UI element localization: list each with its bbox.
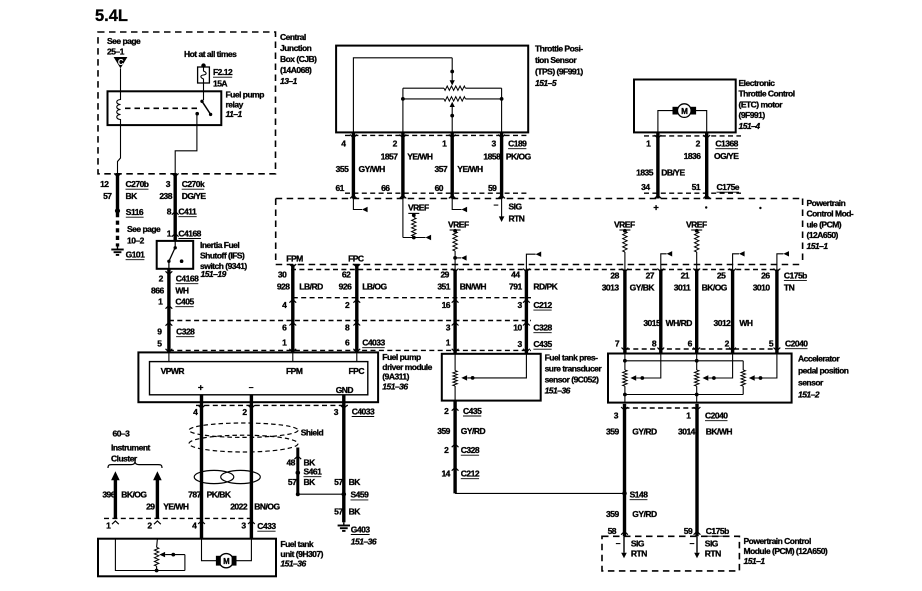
svg-text:C4033: C4033 [352,406,375,416]
svg-text:3013: 3013 [602,283,620,293]
svg-text:355: 355 [336,164,349,174]
svg-text:151–4: 151–4 [739,121,761,131]
svg-text:C189: C189 [508,139,527,149]
PCM SIG RTN 58 [616,536,647,558]
svg-text:Control Mod-: Control Mod- [807,209,854,219]
labels 57 BK at GND wire [334,477,361,487]
connector row C433 [104,517,252,519]
inertia fuel shutoff IFS switch box [157,241,194,269]
connector row C4033 C435 line [169,349,531,351]
svg-text:926: 926 [339,282,352,292]
svg-text:(ETC) motor: (ETC) motor [739,99,784,109]
svg-text:C328: C328 [461,445,480,455]
svg-text:Instrument: Instrument [111,443,150,453]
APP top bus wire [623,359,743,370]
wire 3011 BK/OG APP [693,269,700,354]
svg-text:C2040: C2040 [705,411,728,421]
PCM VREF supply for TPS [403,199,431,241]
svg-text:RTN: RTN [705,549,721,559]
wire 1835 DB/YE ETC pin1 to PCM 34 [655,133,662,199]
connector row C2040 bottom line [625,348,779,350]
svg-text:LB/OG: LB/OG [362,282,387,292]
throttle position sensor TPS box [336,46,528,133]
PCM ETC plus terminal [653,203,659,214]
svg-text:Fuel pump: Fuel pump [226,90,265,100]
connector row C4033 under FPDM [196,404,348,406]
svg-text:sensor (9C052): sensor (9C052) [545,375,599,385]
wire codes 3013 GY/BK 3011 BK/OG 3010 TN [602,283,795,293]
TPS track resistor upper [444,86,465,90]
PCM input 44 [526,252,541,270]
relay armature dashed link [125,107,198,109]
PCM input 25 [733,251,745,269]
svg-text:16: 16 [442,300,451,310]
svg-text:VREF: VREF [408,202,429,212]
C433 pin labels [106,521,276,532]
svg-text:C328: C328 [533,323,552,333]
wire 57 BK to G403 [334,494,361,522]
wire 57 BK below S461 [288,475,316,495]
IFS switch blade [167,241,183,269]
svg-text:25–1: 25–1 [107,47,125,57]
C189 wire codes row2 [336,164,483,174]
svg-text:C175e: C175e [717,182,740,192]
C175e pin numbers [641,182,740,192]
svg-text:G403: G403 [351,524,371,534]
wire 1836 labels [684,151,740,161]
svg-text:10: 10 [513,323,522,333]
svg-text:25: 25 [717,270,726,280]
pins 4 2 16 3 C212 row [282,300,552,310]
svg-text:unit (9H307): unit (9H307) [280,549,323,559]
central junction box CJB dashed enclosure [98,32,276,174]
fuel level sender wiper [159,552,185,571]
fuse F2.12 15A [198,63,233,88]
PCM input 27 [661,251,672,269]
svg-text:LB/RD: LB/RD [299,282,323,292]
svg-text:28: 28 [610,270,619,280]
svg-text:57: 57 [334,477,343,487]
pin 5 label [157,339,162,349]
hot at all times label [184,49,237,59]
wire 928 LB/RD FPM [289,264,296,352]
fuel pump driver module FPDM box [138,352,378,402]
svg-text:See page: See page [107,36,141,46]
wire relay coil to CJB boundary [118,125,121,174]
svg-text:DG/YE: DG/YE [182,191,207,201]
svg-text:57: 57 [103,191,112,201]
wire 926 LB/OG FPC [353,264,360,352]
svg-text:Central: Central [280,32,306,42]
ETC label [739,78,795,131]
svg-text:SIG: SIG [705,539,719,549]
svg-text:PK/BK: PK/BK [207,490,232,500]
APP wiper 3 [749,354,777,381]
svg-text:Cluster: Cluster [111,454,138,464]
svg-text:Throttle Posi-: Throttle Posi- [535,44,583,54]
svg-text:5.4L: 5.4L [95,7,128,25]
accelerator pedal position APP sensor box [608,354,792,403]
svg-text:S461: S461 [304,467,323,477]
ground G403 [338,522,377,546]
wire codes 3015 WH/RD 3012 WH [643,318,753,328]
twisted pair symbol [194,470,260,483]
wire 3014 BK/WH from APP pin1 [694,404,701,536]
fuel pump relay box [108,91,222,125]
svg-text:(9A311): (9A311) [382,372,409,382]
wire labels 396 BK/OG [102,490,147,500]
wire labels 29 YE/WH [146,501,189,511]
svg-text:30: 30 [278,270,287,280]
svg-text:27: 27 [646,270,655,280]
APP track resistor 2 [695,354,699,403]
svg-text:S116: S116 [126,207,144,217]
svg-text:Powertrain: Powertrain [807,198,846,208]
svg-text:ule (PCM): ule (PCM) [807,219,842,229]
wire fuse to relay switch [203,83,205,100]
TPS wiper lower [450,102,455,133]
wire 3013 GY/BK APP [622,269,629,354]
wire 359 GY/RD from FTP [452,401,459,494]
svg-text:Shutoff (IFS): Shutoff (IFS) [200,251,245,261]
svg-text:C435: C435 [463,406,482,416]
svg-text:relay: relay [226,99,244,109]
svg-text:C433: C433 [257,521,276,531]
svg-text:151–36: 151–36 [545,386,571,396]
svg-text:1835: 1835 [636,168,654,178]
svg-text:C405: C405 [175,297,194,307]
wire 866 WH labels [151,286,189,296]
svg-text:SIG: SIG [509,202,523,212]
svg-text:Junction: Junction [280,43,312,53]
splice S461 [296,467,323,477]
svg-text:FPM: FPM [286,253,303,263]
svg-text:BK/OG: BK/OG [121,490,147,500]
svg-text:C175b: C175b [784,270,807,280]
svg-text:RD/PK: RD/PK [533,282,558,292]
svg-text:Box (CJB): Box (CJB) [280,54,317,64]
svg-text:BN/OG: BN/OG [254,501,280,511]
svg-text:Fuel tank: Fuel tank [280,539,314,549]
PCM pin numbers 61 66 60 59 [335,183,497,193]
APP wiper 2 [703,354,733,381]
pins 28 27 21 25 26 C175b row [610,270,807,280]
svg-text:791: 791 [509,282,522,292]
svg-text:pedal position: pedal position [798,366,849,376]
svg-text:3012: 3012 [714,318,732,328]
svg-text:3010: 3010 [753,283,771,293]
wire labels 2022 BN/OG [230,501,280,511]
svg-text:57: 57 [334,507,343,517]
fuel tank unit box [98,539,276,577]
connector row below PCM top [291,269,779,271]
svg-text:Fuel tank pres-: Fuel tank pres- [545,353,598,363]
splice S116 [115,207,144,217]
FTP sensor resistor [453,354,457,401]
wire S461 to S459 [296,492,344,496]
pins 1 6 C4033 1 3 C435 row [282,338,552,350]
svg-text:357: 357 [435,164,448,174]
svg-text:C270k: C270k [182,179,205,189]
svg-text:BK/OG: BK/OG [702,283,728,293]
wire 357 YE/WH pin1 to PCM 60 [449,133,456,199]
svg-text:Hot at all times: Hot at all times [184,49,237,59]
wire 3010 TN APP [774,269,781,354]
svg-text:GY/BK: GY/BK [630,283,656,293]
fuel level sender resistor [154,539,158,571]
connector row C2040 under APP [625,407,698,409]
PCM pin labels FPM FPC [286,253,364,263]
wire 3015 WH/RD APP [657,269,664,354]
svg-text:FPC: FPC [348,253,364,263]
C189 pin numbers [341,139,527,149]
svg-text:FPC: FPC [349,366,365,376]
svg-text:60: 60 [435,183,444,193]
connector triangle C from page 25-1 [114,57,128,68]
APP bottom bus wire [623,393,743,397]
connector row C328 line [169,320,531,322]
CJB label [280,32,317,86]
IFS switch label [200,240,247,279]
FPDM label [382,352,432,391]
svg-text:3014: 3014 [678,427,696,437]
wire code labels row [277,282,559,292]
svg-text:C270b: C270b [126,179,149,189]
ground G101 [111,246,145,259]
svg-text:34: 34 [641,182,650,192]
svg-text:151–19: 151–19 [201,269,227,279]
svg-text:driver module: driver module [382,362,432,372]
svg-text:59: 59 [488,183,497,193]
svg-text:3015: 3015 [643,318,661,328]
APP track resistor 1 [623,354,627,403]
svg-text:787: 787 [188,490,201,500]
fuel tank unit label [280,539,323,569]
wire 1858 PK/OG pin3 to PCM 59 [498,133,505,199]
PCM SIG RTN 59 [690,536,722,558]
svg-text:1857: 1857 [381,152,399,162]
connector C328 pin 9 labels [157,327,195,337]
svg-text:GND: GND [336,385,354,395]
svg-text:13–1: 13–1 [280,76,298,86]
svg-text:(12A650): (12A650) [807,230,839,240]
svg-text:VREF: VREF [686,220,707,230]
svg-text:C4168: C4168 [178,228,201,238]
connector C1368 C175e row [644,136,741,193]
svg-text:C175b: C175b [706,526,729,536]
lower wire code labels [606,427,732,437]
connector C189 row [345,135,529,193]
svg-text:C1368: C1368 [715,139,738,149]
shield drain labels [286,458,316,468]
svg-text:See page: See page [127,224,161,234]
wire 3012 WH APP [729,269,736,354]
svg-text:SIG: SIG [631,539,645,549]
C2040 lower pin labels [614,411,728,421]
svg-text:396: 396 [102,490,115,500]
splice S459 [342,490,370,500]
shield label [301,428,324,438]
svg-text:BK: BK [349,477,362,487]
PCM input 61 [353,199,367,213]
PCM bottom label [744,536,828,566]
svg-text:GY/RD: GY/RD [632,427,657,437]
svg-text:60–3: 60–3 [113,429,131,439]
pins 6 8 3 10 C328 row [282,323,552,333]
PCM label [807,198,854,251]
shield drain wire 48 BK [294,448,301,474]
svg-text:TN: TN [784,283,795,293]
shield cylinder [189,423,298,452]
svg-text:66: 66 [381,183,390,193]
svg-text:151–36: 151–36 [280,559,306,569]
FTP sensor wiper [461,354,526,381]
electronic throttle control ETC motor box [634,80,736,133]
svg-text:PK/OG: PK/OG [506,152,532,162]
svg-text:RTN: RTN [631,549,647,559]
svg-text:BK: BK [304,477,317,487]
pins 30 62 29 44 row [278,270,521,280]
APP track resistor 3 [741,370,745,395]
svg-text:Shield: Shield [301,428,324,438]
svg-text:151–36: 151–36 [382,381,408,391]
svg-text:238: 238 [159,191,172,201]
wire 359 GY/RD labels [437,426,485,436]
wire fuel pump negative [248,395,255,539]
connector C270k labels [159,179,206,201]
wire FTP return to splice S148 [455,492,624,494]
C1368 pin numbers [646,139,739,149]
svg-text:VREF: VREF [448,220,469,230]
svg-text:C435: C435 [533,339,552,349]
wire labels 787 PK/BK [188,490,232,500]
pins 58 59 C175b labels [608,526,730,536]
svg-text:C411: C411 [178,207,197,217]
wire 351 BN/WH to FTP sensor [452,269,459,354]
svg-text:12: 12 [100,179,109,189]
connector C4168 pin 2 labels [159,274,199,284]
wire 866 WH from IFS to FPDM VPWR [166,269,173,352]
pins 7 8 6 2 5 C2040 row [615,339,808,349]
svg-text:(9F991): (9F991) [739,110,766,120]
C328 pin 2 labels [444,445,480,455]
svg-text:51: 51 [692,182,701,192]
svg-text:WH: WH [739,318,753,328]
svg-text:359: 359 [606,509,619,519]
svg-text:928: 928 [277,282,290,292]
TPS pin4 internal wire [353,58,452,133]
svg-text:151–2: 151–2 [798,390,820,400]
instrument cluster note [111,429,150,464]
wire FPDM GND 57 BK [340,395,347,494]
svg-text:15A: 15A [213,79,227,89]
svg-text:11–1: 11–1 [226,109,243,119]
svg-text:WH: WH [175,286,189,296]
svg-text:C212: C212 [461,469,480,479]
title 5.4L [95,7,128,25]
svg-text:14: 14 [441,469,450,479]
svg-text:C328: C328 [176,327,195,337]
svg-text:Fuel pump: Fuel pump [382,352,421,362]
ETC motor internal wires [658,111,707,133]
PCM VREF pullup for FTP sensor [448,220,469,270]
PCM input 26 [777,251,789,269]
svg-text:866: 866 [151,286,164,296]
svg-text:BK: BK [349,507,362,517]
FPDM internal stubs [169,352,357,361]
svg-text:VREF: VREF [614,220,635,230]
svg-text:3011: 3011 [674,283,691,293]
svg-text:RTN: RTN [509,214,525,224]
C189 wire codes row1 [381,152,532,162]
wire 1836 OG/YE ETC pin2 to PCM 51 [703,133,710,199]
svg-text:26: 26 [761,270,770,280]
FTP sensor label [545,353,603,396]
svg-text:Accelerator: Accelerator [798,354,840,364]
see page 10-2 note [127,224,161,246]
svg-text:S459: S459 [351,490,370,500]
C435 pin 2 labels [444,406,482,416]
fuel tank pressure transducer box [442,354,541,401]
PCM ETC minus terminal [705,206,707,208]
PCM input 60 [452,199,467,213]
connector C270b labels [100,179,149,201]
wire 238 DG/YE from CJB pin 3 [172,173,179,241]
TPS pin2 internal wire [402,88,404,132]
TPS label [535,44,583,89]
svg-text:351: 351 [437,282,450,292]
APP wiper 1 [630,354,660,381]
relay switch blade and contact [195,100,212,117]
wire 355 GY/WH pin4 to PCM 61 [350,133,357,199]
PCM SIG RTN 59 [494,199,525,224]
svg-text:OG/YE: OG/YE [714,151,739,161]
TPS wiper upper [450,58,455,86]
svg-text:YE/WH: YE/WH [163,501,189,511]
wire 396 BK/OG to instrument cluster [111,471,120,524]
PCM minus mark [759,207,761,209]
svg-text:C: C [118,58,124,67]
svg-text:GY/RD: GY/RD [461,426,486,436]
wire 359 GY/RD below S148 labels [606,509,657,519]
svg-text:GY/WH: GY/WH [359,164,386,174]
C212 pin 14 labels [441,469,479,479]
powertrain control module PCM dashed boundary [276,199,803,265]
PCM VREF supply APP 28 [614,220,635,270]
svg-text:M: M [223,557,229,566]
APP sensor label [798,354,849,400]
svg-text:M: M [681,107,688,116]
wire 29 YE/WH to instrument cluster [153,471,162,524]
PCM VREF supply APP 21 [686,220,707,270]
svg-text:DB/YE: DB/YE [661,168,685,178]
connector C411 labels [167,207,197,217]
svg-text:48: 48 [286,458,295,468]
svg-text:GY/RD: GY/RD [632,509,657,519]
svg-text:Throttle Control: Throttle Control [739,89,795,99]
svg-text:F2.12: F2.12 [213,67,233,77]
svg-text:Powertrain Control: Powertrain Control [744,536,811,546]
svg-text:FPM: FPM [286,366,303,376]
svg-text:G101: G101 [126,250,146,260]
svg-text:Inertia Fuel: Inertia Fuel [200,240,239,250]
svg-text:10–2: 10–2 [127,236,145,246]
svg-text:Module (PCM) (12A650): Module (PCM) (12A650) [744,546,828,556]
tank ground internal wire [115,539,184,573]
ETC motor M symbol [673,104,696,118]
splice S148 [622,490,648,500]
svg-text:2022: 2022 [230,501,248,511]
